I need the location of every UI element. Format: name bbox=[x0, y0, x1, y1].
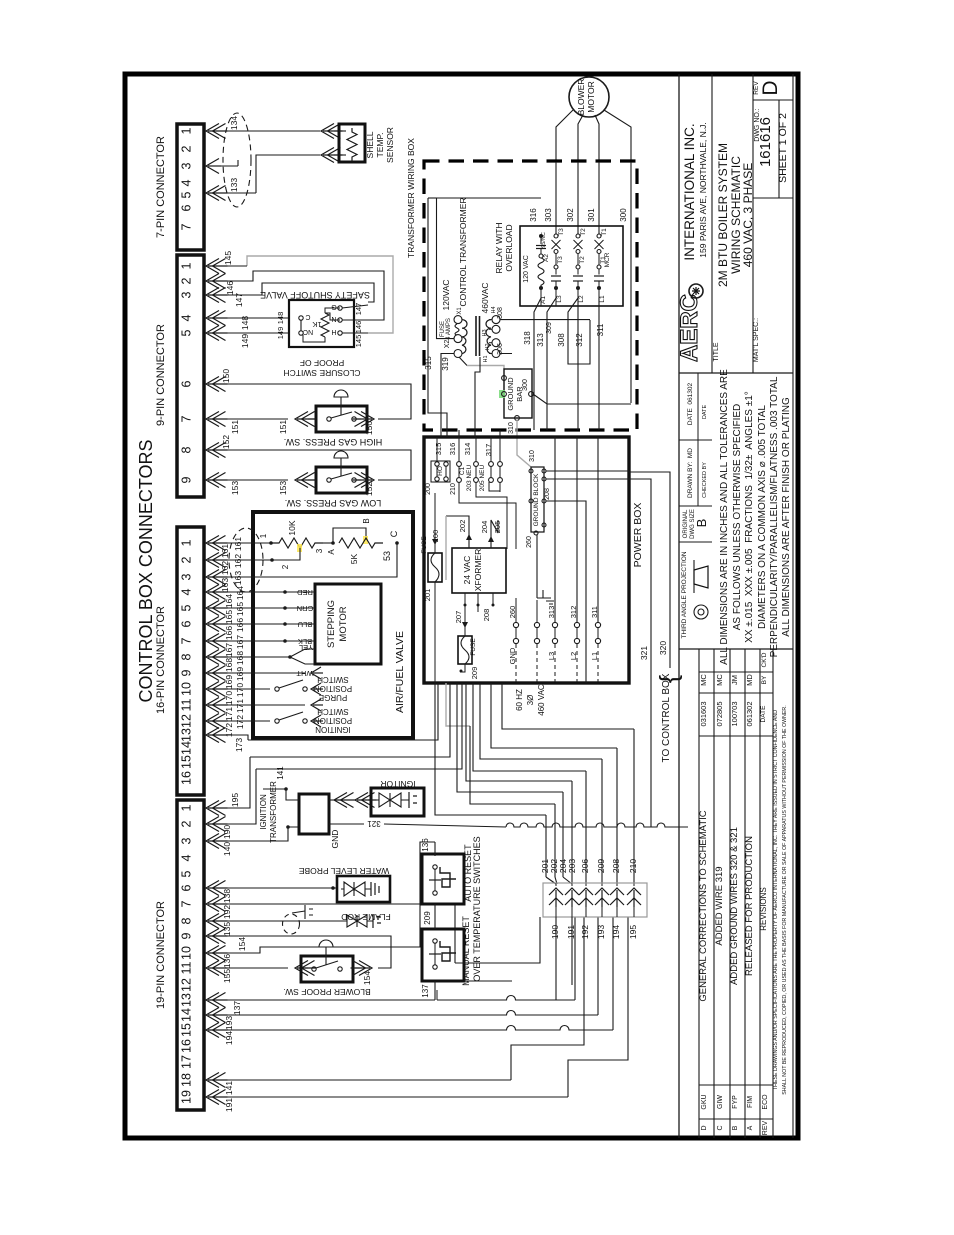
svg-text:ALL DIMENSIONS ARE AFTER FINIS: ALL DIMENSIONS ARE AFTER FINISH OR PLATI… bbox=[781, 397, 792, 637]
wire 135 bbox=[219, 920, 286, 922]
wire 201 from fuse bbox=[434, 582, 436, 683]
terminal H3 bbox=[492, 325, 500, 333]
bundle plug arrows wire x=586 bbox=[579, 888, 593, 895]
svg-text:14: 14 bbox=[180, 1008, 194, 1022]
plug arrows 19-pin pin3 (wire 140) bbox=[206, 834, 219, 849]
svg-text:146: 146 bbox=[354, 321, 363, 334]
svg-text:16: 16 bbox=[180, 1039, 194, 1053]
svg-text:6: 6 bbox=[180, 620, 194, 627]
node 138 bbox=[331, 886, 335, 890]
flame rod ground bbox=[373, 914, 381, 928]
power terminal pair L3 bbox=[552, 622, 557, 627]
svg-text:149: 149 bbox=[276, 327, 285, 340]
svg-text:1: 1 bbox=[180, 262, 194, 269]
svg-text:460 VAC, 3 PHASE: 460 VAC, 3 PHASE bbox=[741, 163, 755, 268]
actuator stem bbox=[340, 397, 342, 415]
wire 191 below strip stub bbox=[571, 917, 573, 985]
wire 202 bbox=[446, 516, 469, 548]
svg-text:FYP: FYP bbox=[732, 1095, 739, 1109]
wire 190 run to power box bbox=[256, 683, 462, 769]
plug arrows 19-pin pin13 (wire 137) bbox=[206, 993, 219, 1008]
wire 3-A bbox=[323, 542, 333, 544]
svg-text:151: 151 bbox=[230, 420, 240, 434]
relay coil column A1/A2 bbox=[539, 234, 543, 238]
svg-text:H3: H3 bbox=[482, 329, 488, 336]
svg-text:308: 308 bbox=[557, 333, 566, 347]
node 141 bbox=[284, 787, 288, 791]
wire from manual reset to bundle bbox=[464, 980, 512, 982]
svg-text:INTERNATIONAL INC.: INTERNATIONAL INC. bbox=[682, 123, 697, 260]
wire A to wiper B bbox=[333, 528, 366, 543]
svg-text:171: 171 bbox=[235, 699, 245, 713]
svg-text:C: C bbox=[717, 1125, 724, 1130]
svg-text:H1: H1 bbox=[483, 355, 489, 362]
wire 166 to motor BLU bbox=[219, 623, 315, 625]
svg-text:167: 167 bbox=[235, 635, 245, 649]
svg-text:150: 150 bbox=[221, 369, 231, 383]
wire 194 riser bbox=[612, 917, 614, 1030]
control transformer core bbox=[475, 316, 477, 356]
svg-text:209: 209 bbox=[596, 859, 606, 873]
wire 172 bbox=[219, 720, 270, 722]
svg-text:170: 170 bbox=[235, 683, 245, 697]
svg-text:136: 136 bbox=[421, 838, 430, 852]
svg-text:8: 8 bbox=[180, 446, 194, 453]
wire 300 bbox=[630, 162, 632, 403]
potentiometer 10K bbox=[271, 538, 323, 548]
svg-text:DATE: DATE bbox=[760, 705, 767, 723]
svg-text:150: 150 bbox=[364, 421, 374, 435]
svg-text:136: 136 bbox=[222, 954, 232, 968]
over temp switch internals bbox=[433, 939, 437, 943]
node GND ignition transformer bbox=[286, 825, 290, 829]
svg-text:DIAMETERS ON A COMMON AXIS ⌀ .: DIAMETERS ON A COMMON AXIS ⌀ .005 TOTAL bbox=[757, 405, 768, 629]
gray wire 310 to ground block bbox=[517, 420, 531, 467]
svg-text:191: 191 bbox=[224, 1098, 234, 1112]
wire 165 to motor GRN bbox=[219, 607, 315, 609]
svg-text:310: 310 bbox=[508, 422, 515, 434]
svg-text:ORIGINAL: ORIGINAL bbox=[683, 509, 689, 538]
svg-text:BLU: BLU bbox=[298, 620, 313, 629]
ignitor ground electrode bbox=[409, 792, 417, 808]
svg-text:194: 194 bbox=[224, 1031, 234, 1045]
svg-text:208: 208 bbox=[611, 859, 621, 873]
ground block terminal bbox=[542, 499, 546, 503]
HIGH GAS PRESS. SW. box bbox=[316, 406, 367, 432]
plug arrows 19-pin pin9 (wire 154) bbox=[206, 929, 219, 944]
blower proof contact left bbox=[312, 967, 316, 971]
wire 195 run to power box bbox=[250, 683, 450, 757]
wire stub pin 3 bbox=[212, 165, 238, 167]
svg-text:16-PIN CONNECTOR: 16-PIN CONNECTOR bbox=[155, 606, 167, 714]
svg-text:T2: T2 bbox=[580, 228, 587, 236]
svg-text:203 NEU: 203 NEU bbox=[466, 465, 473, 492]
svg-text:GND: GND bbox=[330, 830, 340, 849]
plug arrows pin (wire 152) bbox=[206, 443, 219, 458]
overload contact bar bbox=[594, 275, 604, 277]
svg-text:BLOWER PROOF SW.: BLOWER PROOF SW. bbox=[283, 987, 370, 997]
svg-text:9: 9 bbox=[180, 932, 194, 939]
wire 146 bbox=[219, 271, 384, 320]
terminal pair 317 bbox=[498, 462, 503, 467]
svg-text:BLOWER: BLOWER bbox=[576, 79, 586, 116]
power terminal pair L2 bbox=[574, 622, 579, 627]
plug arrows 19-pin pin19 (wire 191) bbox=[206, 1090, 219, 1105]
svg-text:60 HZ: 60 HZ bbox=[515, 689, 524, 711]
svg-text:MD: MD bbox=[745, 674, 754, 686]
purge position switch bbox=[275, 687, 279, 691]
wire 141 bbox=[219, 1079, 511, 1081]
svg-text:4: 4 bbox=[180, 314, 194, 321]
svg-text:B: B bbox=[732, 1125, 739, 1130]
wire 154 bbox=[219, 936, 391, 968]
wire 149 bbox=[219, 332, 289, 334]
svg-text:MOTOR: MOTOR bbox=[586, 81, 596, 112]
svg-text:CLOSURE SWITCH: CLOSURE SWITCH bbox=[284, 368, 361, 378]
shell temp sensor resistor element bbox=[347, 128, 357, 161]
svg-text:120VAC: 120VAC bbox=[441, 279, 451, 310]
svg-text:154: 154 bbox=[237, 937, 247, 951]
blower proof contact right bbox=[338, 967, 342, 971]
svg-text:260: 260 bbox=[526, 536, 533, 548]
wire 168 bbox=[219, 656, 290, 658]
svg-text:T1: T1 bbox=[601, 228, 608, 236]
svg-text:GIW: GIW bbox=[717, 1095, 724, 1109]
wire 141 riser bbox=[511, 917, 584, 1080]
svg-text:T3: T3 bbox=[558, 228, 565, 236]
svg-text:XFORMER: XFORMER bbox=[473, 549, 483, 592]
svg-text:192: 192 bbox=[580, 925, 590, 939]
wire riser into bundle bbox=[585, 877, 587, 884]
svg-text:DATE 061302: DATE 061302 bbox=[687, 383, 694, 426]
svg-text:15: 15 bbox=[180, 1023, 194, 1037]
wires 204/205 bbox=[491, 520, 498, 548]
ground bar terminal 2 bbox=[502, 392, 507, 397]
wire 316 into power box bbox=[458, 430, 460, 437]
gray wire at 202 bbox=[445, 516, 447, 580]
svg-text:CONTROL TRANSFORMER: CONTROL TRANSFORMER bbox=[458, 197, 468, 306]
wire 321 horizontal with hops bbox=[506, 823, 688, 827]
svg-text:1: 1 bbox=[259, 533, 268, 538]
transformer fuse squiggle bbox=[455, 324, 459, 335]
terminal X3 bbox=[454, 350, 462, 358]
ground block terminal bbox=[542, 469, 546, 473]
svg-text:166: 166 bbox=[224, 626, 234, 640]
svg-text:A: A bbox=[327, 549, 336, 555]
wire 260 down from ground block bbox=[536, 535, 538, 598]
svg-text:CK'D: CK'D bbox=[761, 652, 768, 667]
svg-text:IGNITOR: IGNITOR bbox=[380, 779, 415, 789]
svg-text:5: 5 bbox=[180, 329, 194, 336]
terminal pair 205 NEU bbox=[489, 462, 494, 467]
plug arrows into HIGH GAS PRESS. SW. bbox=[295, 412, 308, 427]
svg-text:AERC: AERC bbox=[676, 294, 703, 362]
original dwg size cell bbox=[679, 541, 712, 543]
wire 319 into power box bbox=[440, 430, 442, 437]
plug arrows 16-pin (wire 165) bbox=[206, 601, 219, 616]
svg-text:B: B bbox=[694, 519, 709, 528]
wire 203 staircase bbox=[466, 683, 572, 781]
wire riser into bundle bbox=[633, 877, 635, 884]
wire 319 from X3 bbox=[441, 354, 454, 431]
svg-text:309: 309 bbox=[546, 322, 553, 334]
ground block terminal bbox=[542, 477, 546, 481]
svg-text:315: 315 bbox=[424, 356, 433, 370]
wire 190 bbox=[219, 769, 256, 824]
svg-text:18: 18 bbox=[180, 1073, 194, 1087]
svg-text:318: 318 bbox=[523, 331, 532, 345]
svg-text:POSITION: POSITION bbox=[314, 716, 352, 725]
water level probe box bbox=[337, 876, 390, 902]
svg-text:HO: HO bbox=[437, 466, 444, 476]
svg-text:316: 316 bbox=[529, 208, 538, 222]
svg-text:FUSE: FUSE bbox=[470, 638, 477, 656]
plug arrows 19-pin pin7 (wire 192) bbox=[206, 897, 219, 912]
svg-text:153: 153 bbox=[278, 481, 288, 495]
svg-text:166: 166 bbox=[235, 618, 245, 632]
svg-text:2: 2 bbox=[180, 277, 194, 284]
title block boundary lines bbox=[678, 74, 680, 1138]
svg-text:154: 154 bbox=[362, 971, 372, 985]
svg-text:DRAWN BY: MD: DRAWN BY: MD bbox=[687, 448, 694, 498]
svg-text:13: 13 bbox=[180, 993, 194, 1007]
LOW GAS PRESS. SW. box bbox=[316, 467, 367, 493]
svg-text:7: 7 bbox=[180, 223, 194, 230]
wire 308 from H4 bbox=[500, 319, 590, 321]
plug arrows pin 3 (9-pin) bbox=[206, 288, 219, 303]
svg-text:194: 194 bbox=[611, 925, 621, 939]
svg-text:ADDED WIRE 319: ADDED WIRE 319 bbox=[714, 866, 725, 945]
svg-text:11: 11 bbox=[180, 698, 194, 711]
svg-text:300: 300 bbox=[522, 379, 529, 391]
svg-text:319: 319 bbox=[441, 357, 450, 371]
svg-text:7: 7 bbox=[180, 900, 194, 907]
wire 170 bbox=[219, 688, 270, 690]
plug arrow pin 3 (7-pin) bbox=[206, 159, 219, 174]
third angle projection cell bbox=[679, 648, 793, 650]
wire 204 diagonal into bundle bbox=[563, 877, 572, 884]
svg-text:162: 162 bbox=[233, 554, 243, 568]
relay pole T2/L2 bbox=[576, 234, 580, 238]
svg-text:153: 153 bbox=[230, 481, 240, 495]
svg-text:REV: REV bbox=[762, 1120, 769, 1135]
revision table bbox=[698, 649, 700, 1138]
plug arrows pin 1 (7-pin) bbox=[206, 124, 219, 139]
wire riser at 575 bbox=[574, 917, 576, 1000]
19-pin connector strip bbox=[177, 800, 204, 1110]
svg-text:THIRD ANGLE PROJECTION: THIRD ANGLE PROJECTION bbox=[681, 551, 688, 638]
svg-text:310: 310 bbox=[529, 450, 536, 462]
wire 321 run right bbox=[384, 824, 506, 827]
svg-text:2M BTU BOILER SYSTEM: 2M BTU BOILER SYSTEM bbox=[716, 143, 730, 287]
svg-text:138: 138 bbox=[222, 889, 232, 903]
svg-text:4 AMPS: 4 AMPS bbox=[446, 318, 452, 340]
svg-text:3: 3 bbox=[180, 162, 194, 169]
plug arrows 16-pin (wire 164) bbox=[206, 585, 219, 600]
svg-text:MANUAL RESET: MANUAL RESET bbox=[461, 916, 471, 986]
switch contact right bbox=[352, 417, 356, 421]
wire 206 riser bbox=[585, 771, 587, 877]
wire 201 diagonal into bundle bbox=[546, 877, 556, 884]
plug arrows pin (wire 153) bbox=[206, 473, 219, 488]
svg-text:100703: 100703 bbox=[730, 701, 739, 726]
wire 300 ground bar to feeder bbox=[533, 394, 631, 404]
svg-text:195: 195 bbox=[628, 925, 638, 939]
svg-text:24 VAC: 24 VAC bbox=[462, 556, 472, 585]
HO terminal outline bbox=[431, 461, 450, 482]
svg-text:D: D bbox=[759, 80, 782, 95]
plug arrows pin 5 (7-pin) bbox=[206, 186, 219, 201]
dashed oval around wires 161-163 bbox=[229, 528, 263, 592]
svg-text:149: 149 bbox=[240, 334, 250, 348]
svg-text:317: 317 bbox=[484, 444, 493, 457]
svg-text:GRN: GRN bbox=[297, 604, 314, 613]
switch arm bbox=[331, 473, 352, 479]
svg-text:7: 7 bbox=[180, 415, 194, 422]
over temp switch internals bbox=[433, 865, 437, 869]
switch contact right bbox=[352, 478, 356, 482]
svg-text:2: 2 bbox=[281, 564, 290, 569]
plug arrows into blower proof sw bbox=[295, 961, 308, 976]
wire 151 bbox=[219, 418, 288, 420]
plug arrows pin 1 (16-pin) bbox=[206, 536, 219, 551]
wire WHT bbox=[290, 657, 315, 664]
power terminal pair L1 bbox=[595, 622, 600, 627]
ground block terminal bbox=[542, 523, 546, 527]
svg-text:148: 148 bbox=[240, 316, 250, 330]
svg-text:HIGH GAS PRESS. SW.: HIGH GAS PRESS. SW. bbox=[284, 437, 383, 447]
svg-text:THESE DRAWINGS AND/OR SPECIFIC: THESE DRAWINGS AND/OR SPECIFICATIONS ARE… bbox=[773, 710, 779, 1090]
svg-text:162: 162 bbox=[220, 561, 230, 575]
wire 313 below relay bbox=[547, 298, 556, 430]
svg-text:GKU: GKU bbox=[701, 1094, 708, 1109]
svg-text:148: 148 bbox=[276, 312, 285, 325]
svg-text:300: 300 bbox=[619, 208, 628, 222]
svg-text:4: 4 bbox=[180, 588, 194, 595]
terminal pair HO bbox=[435, 462, 439, 466]
wire 312 through power box bbox=[576, 437, 578, 622]
svg-text:15: 15 bbox=[180, 755, 194, 769]
plug arrows pin (wire 151) bbox=[206, 412, 219, 427]
svg-text:303: 303 bbox=[544, 208, 553, 222]
svg-text:140: 140 bbox=[222, 842, 232, 856]
svg-text:17: 17 bbox=[180, 1055, 194, 1069]
wire 209 from fuse 2 bbox=[460, 664, 465, 672]
svg-text:169: 169 bbox=[235, 667, 245, 681]
svg-text:203: 203 bbox=[567, 859, 577, 873]
svg-text:GENERAL CORRECTIONS TO SCHEMAT: GENERAL CORRECTIONS TO SCHEMATIC bbox=[698, 810, 709, 1001]
svg-text:SAFETY SHUTOFF VALVE: SAFETY SHUTOFF VALVE bbox=[260, 290, 370, 300]
svg-text:5: 5 bbox=[180, 191, 194, 198]
svg-text:A2: A2 bbox=[543, 254, 550, 262]
svg-text:195: 195 bbox=[230, 793, 240, 807]
plug arrows shell sensor wire 133 bbox=[321, 148, 334, 163]
ground bar terminal bottom bbox=[515, 416, 520, 421]
xformer third pin stub bbox=[492, 593, 494, 605]
wire 209 riser bbox=[601, 759, 603, 877]
svg-text:134: 134 bbox=[229, 116, 239, 130]
svg-text:161616: 161616 bbox=[757, 117, 774, 167]
svg-text:137: 137 bbox=[232, 1001, 242, 1015]
plug arrows pin 13 (wire 173) bbox=[206, 728, 219, 743]
stepping motor box bbox=[315, 584, 381, 664]
svg-text:6: 6 bbox=[180, 884, 194, 891]
svg-text:8: 8 bbox=[180, 653, 194, 660]
svg-text:11: 11 bbox=[180, 961, 194, 974]
fuse F2 element bbox=[461, 636, 469, 664]
wiper wire 2 bbox=[272, 548, 300, 560]
svg-text:B: B bbox=[362, 518, 371, 523]
svg-text:9: 9 bbox=[180, 669, 194, 676]
wire 153 bbox=[219, 479, 288, 481]
ignition position switch bbox=[275, 719, 279, 723]
wire H-side down to power box bbox=[475, 357, 480, 430]
border frame bbox=[125, 74, 798, 1138]
svg-text:MAT'L SPEC.:: MAT'L SPEC.: bbox=[753, 318, 760, 362]
wire 206 ground block to bundle bbox=[546, 501, 586, 683]
svg-text:REVISIONS: REVISIONS bbox=[759, 887, 768, 931]
svg-text:460 VAC: 460 VAC bbox=[537, 684, 546, 716]
svg-text:BY: BY bbox=[761, 675, 768, 684]
wire 191 bbox=[219, 1096, 568, 1098]
svg-text:T3: T3 bbox=[557, 256, 564, 264]
svg-text:X2: X2 bbox=[444, 340, 451, 349]
svg-text:301: 301 bbox=[587, 208, 596, 222]
svg-text:10: 10 bbox=[180, 946, 194, 960]
motor lead to wire 301 bbox=[595, 115, 599, 162]
coil contact bar bbox=[536, 245, 546, 247]
actuator cup bbox=[334, 390, 348, 397]
svg-text:207: 207 bbox=[454, 611, 463, 624]
svg-text:072805: 072805 bbox=[715, 701, 724, 726]
svg-text:164: 164 bbox=[235, 586, 245, 600]
relay coil spring bbox=[538, 258, 544, 286]
wire 315 left vertical bbox=[428, 198, 447, 430]
flame rod electrode wire bbox=[292, 911, 305, 913]
svg-text:161: 161 bbox=[233, 537, 243, 551]
wire 192 bbox=[219, 904, 455, 963]
svg-text:TO CONTROL BOX: TO CONTROL BOX bbox=[661, 673, 672, 762]
svg-text:314: 314 bbox=[463, 443, 472, 456]
svg-text:POSITION: POSITION bbox=[314, 684, 352, 693]
wire 194 bbox=[219, 1026, 613, 1031]
svg-text:A: A bbox=[747, 1125, 754, 1130]
plug arrows pin 2 (9-pin) bbox=[206, 274, 219, 289]
flame rod electrode (dashed) bbox=[283, 914, 300, 934]
terminal H4 bbox=[492, 316, 500, 324]
svg-text:302: 302 bbox=[566, 208, 575, 222]
svg-text:RELEASED FOR PRODUCTION: RELEASED FOR PRODUCTION bbox=[744, 836, 755, 976]
svg-text:14: 14 bbox=[180, 741, 194, 755]
svg-text:7-PIN CONNECTOR: 7-PIN CONNECTOR bbox=[155, 136, 167, 238]
projection symbol circle bbox=[694, 605, 708, 619]
svg-text:GROUND BLOCK: GROUND BLOCK bbox=[533, 473, 540, 526]
svg-text:NC: NC bbox=[303, 328, 313, 335]
svg-text:312: 312 bbox=[575, 333, 584, 347]
svg-text:2: 2 bbox=[180, 556, 194, 563]
svg-text:12: 12 bbox=[180, 978, 194, 992]
wire 210 riser bbox=[633, 729, 635, 877]
svg-text:204: 204 bbox=[480, 521, 489, 534]
svg-text:A1: A1 bbox=[540, 296, 547, 304]
svg-text:316: 316 bbox=[448, 443, 457, 456]
svg-text:ECO: ECO bbox=[762, 1094, 769, 1110]
svg-text:168: 168 bbox=[235, 651, 245, 665]
svg-text:TRANSFORMER WIRING BOX: TRANSFORMER WIRING BOX bbox=[406, 138, 416, 258]
svg-text:H: H bbox=[331, 328, 336, 335]
svg-text:TITLE: TITLE bbox=[713, 342, 720, 361]
svg-text:190: 190 bbox=[222, 825, 232, 839]
